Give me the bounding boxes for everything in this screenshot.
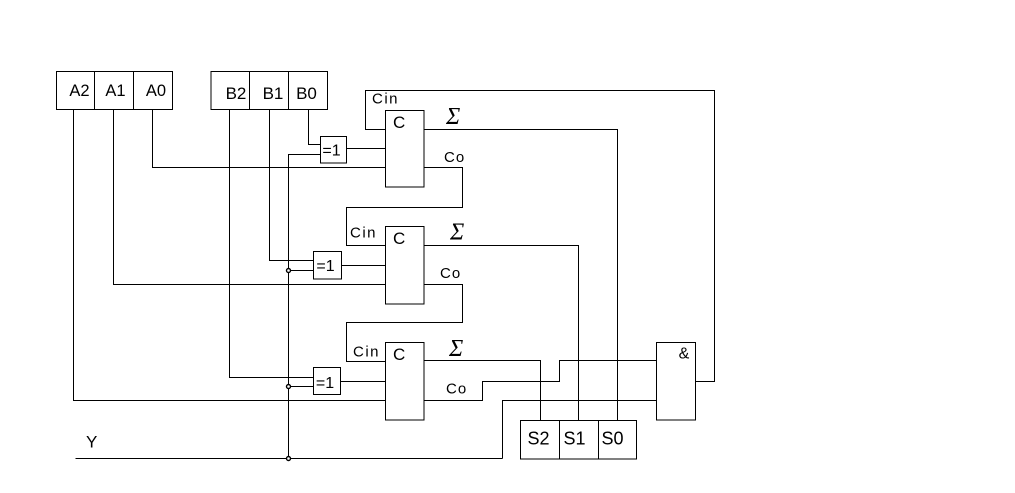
- svg-text:Cin: Cin: [350, 225, 377, 242]
- svg-text:B0: B0: [296, 84, 317, 103]
- svg-text:B1: B1: [263, 84, 284, 103]
- svg-text:A0: A0: [146, 82, 166, 100]
- register A box: [57, 72, 173, 110]
- wire Co of U1 to Cin of U2: [347, 168, 463, 246]
- svg-text:Σ: Σ: [448, 336, 463, 362]
- svg-text:Co: Co: [446, 381, 467, 398]
- wire AND output to Cin of U1 (top feedback line): [366, 91, 715, 382]
- XOR gate X1 (=1, bit 0): [321, 137, 347, 164]
- wire X2 output to U2: [342, 265, 386, 267]
- svg-text:C: C: [393, 229, 405, 248]
- svg-text:=1: =1: [322, 143, 340, 160]
- junction on Y riser at X2 branch: [287, 269, 291, 273]
- svg-text:S0: S0: [601, 429, 623, 449]
- svg-text:=1: =1: [316, 258, 334, 275]
- wire A2 to U3 input: [74, 110, 386, 401]
- wire Y horizontal net: [76, 458, 503, 460]
- svg-text:S1: S1: [563, 429, 585, 449]
- svg-text:&: &: [679, 346, 690, 363]
- svg-text:A2: A2: [69, 82, 89, 100]
- svg-text:C: C: [393, 345, 405, 364]
- junction on Y riser at X3 branch: [287, 385, 291, 389]
- svg-text:Σ: Σ: [445, 104, 460, 130]
- register S box: [521, 421, 637, 460]
- register B box: [211, 72, 328, 110]
- wire X1 output to U1: [347, 148, 386, 150]
- wire sum of U3 to S2: [424, 361, 541, 421]
- wire A0 to U1 input: [153, 110, 386, 168]
- svg-text:=1: =1: [316, 375, 334, 392]
- adder U3 (C block, bit 2): [386, 343, 425, 421]
- wire Y vertical riser to X1: [289, 155, 321, 459]
- wire X3 output to U3: [341, 381, 386, 383]
- wire B2 to X3 input: [230, 110, 314, 378]
- wire sum of U2 to S1: [424, 246, 579, 421]
- wire Co of U2 to Cin of U3: [347, 285, 463, 362]
- wire B1 to X2 input: [270, 110, 314, 261]
- wire Co of U3 to AND gate input: [424, 361, 657, 401]
- svg-text:Cin: Cin: [372, 91, 399, 108]
- svg-text:Σ: Σ: [449, 220, 464, 246]
- svg-text:Co: Co: [444, 149, 465, 166]
- wire A1 to U2 input: [114, 110, 386, 285]
- adder U2 (C block, bit 1): [386, 227, 425, 305]
- wire Y branch to X3: [289, 386, 314, 388]
- XOR gate X3 (=1, bit 2): [314, 368, 341, 395]
- adder U1 (C block, bit 0): [386, 111, 425, 188]
- wire sum of U1 to S0: [424, 130, 618, 421]
- wire B0 to X1 input: [309, 110, 321, 145]
- svg-text:Y: Y: [86, 433, 97, 452]
- AND gate U4 (&): [657, 343, 696, 421]
- svg-text:A1: A1: [105, 82, 125, 100]
- wire Y to AND gate input: [503, 401, 657, 459]
- svg-text:Cin: Cin: [353, 344, 380, 361]
- svg-text:Co: Co: [440, 265, 461, 282]
- XOR gate X2 (=1, bit 1): [314, 252, 342, 280]
- svg-text:S2: S2: [527, 429, 549, 449]
- svg-text:C: C: [393, 113, 405, 132]
- svg-text:B2: B2: [226, 84, 247, 103]
- junction of Y horizontal and riser: [287, 457, 291, 461]
- wire Y branch to X2: [289, 270, 314, 272]
